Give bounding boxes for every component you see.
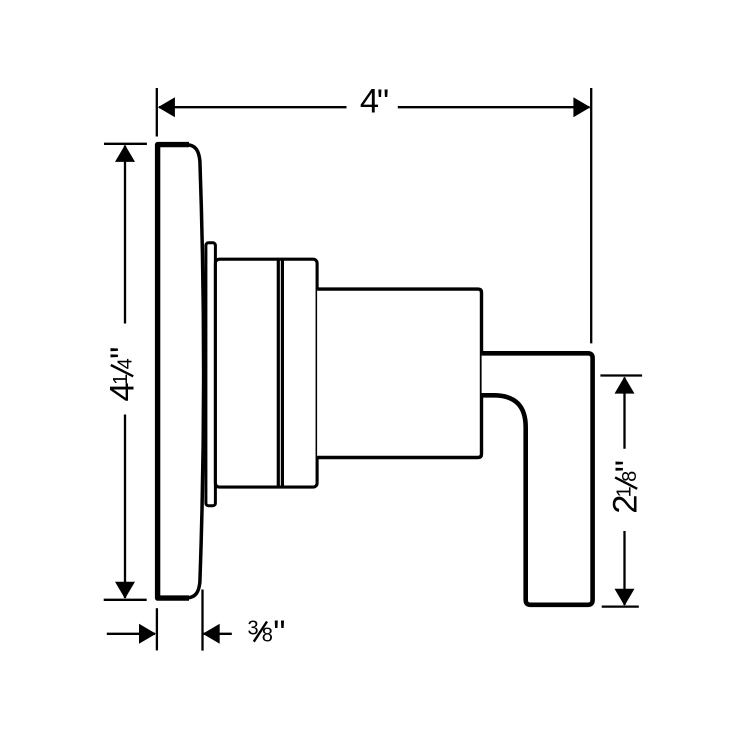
dim 4-1/4in arrow top (115, 145, 135, 162)
sleeve lip ring (206, 243, 216, 506)
dim 4in arrow left (158, 97, 175, 117)
svg-text:": " (104, 347, 142, 359)
svg-text:": " (273, 614, 285, 652)
dim 4-1/4in arrow bottom (115, 582, 135, 599)
dim 2-1/8in tick top (600, 374, 642, 376)
dim 3/8in arrow left (139, 624, 156, 644)
svg-text:": " (377, 83, 389, 121)
dim 4-1/4in label (104, 347, 143, 402)
dim 4in line left segment (159, 106, 347, 108)
dim 2-1/8in arrow bottom (615, 589, 635, 606)
dim 4-1/4in line top segment (124, 146, 126, 324)
dim 4in ext line left (156, 88, 158, 137)
dim 3/8in right tail (203, 633, 232, 635)
dim 2-1/8in tick bottom (602, 605, 639, 607)
dim 4-1/4in tick bottom (104, 599, 147, 601)
escutcheon flange thick face and rim edges (158, 145, 189, 598)
escutcheon flange fill (158, 145, 204, 598)
dim 4in arrow right (573, 97, 590, 117)
svg-text:1: 1 (613, 486, 635, 497)
dim 4-1/4in tick top (104, 143, 147, 145)
dim 2-1/8in line top segment (623, 378, 625, 449)
svg-text:": " (609, 460, 647, 472)
joint double line (277, 259, 280, 487)
svg-text:8: 8 (262, 625, 273, 647)
handle hub cylinder (317, 289, 481, 457)
dim 3/8in arrow right (203, 624, 220, 644)
svg-text:1: 1 (110, 374, 132, 385)
dim 4in ext line right (590, 88, 592, 343)
dim 4in line right segment (398, 106, 590, 108)
dim 2-1/8in label (607, 460, 647, 514)
dim 3/8in ext line right (201, 590, 203, 651)
dim 4in label (360, 82, 389, 121)
dim 3/8in ext line left (156, 608, 158, 650)
dim 2-1/8in arrow top (615, 377, 635, 394)
sleeve / stop ring outer (215, 259, 317, 487)
lever handle (482, 353, 593, 605)
dim 4-1/4in line bottom segment (124, 415, 126, 599)
escutcheon flange curved right edge (188, 145, 204, 598)
dim 2-1/8in line bottom segment (623, 531, 625, 605)
dim 3/8in label (248, 614, 286, 652)
dim 3/8in left tail (107, 633, 155, 635)
